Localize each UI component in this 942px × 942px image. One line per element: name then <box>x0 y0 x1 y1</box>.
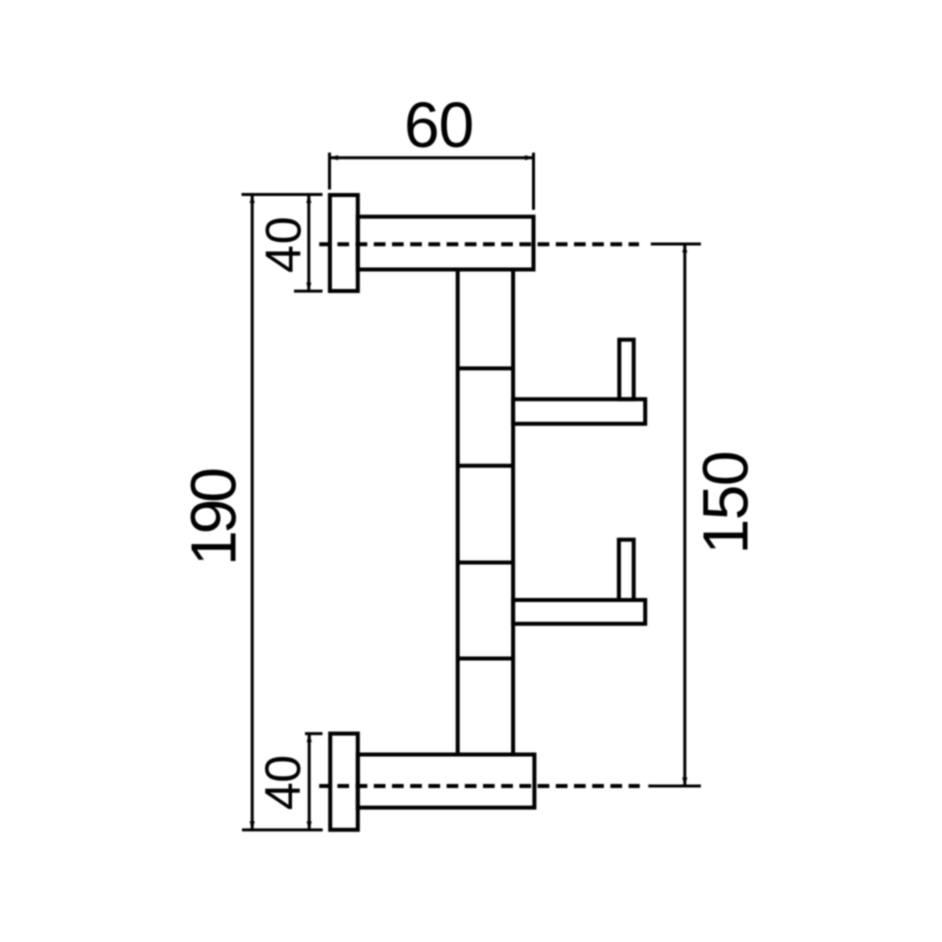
svg-text:40: 40 <box>256 215 312 273</box>
bottom extension line shared 190/40 <box>242 828 323 831</box>
bottom wall flange <box>330 734 358 830</box>
dim 40 top lower extension <box>294 290 323 293</box>
svg-text:40: 40 <box>255 755 311 810</box>
dim 40 top line <box>307 195 310 292</box>
dim 60 right extension <box>532 153 535 210</box>
dim 150 bottom extension <box>648 785 701 788</box>
hook arm 1 <box>513 399 645 424</box>
dim 40 bottom line <box>308 734 311 830</box>
dim 150 line <box>683 244 686 786</box>
arrow dim190 up <box>250 195 255 204</box>
post joint line 1 <box>458 366 513 370</box>
top centerline <box>319 242 639 246</box>
hook arm 2 <box>513 600 645 624</box>
dim 190 line <box>251 195 254 830</box>
bottom centerline <box>319 784 640 788</box>
vertical post <box>458 270 513 755</box>
arrow dim40top up <box>306 195 311 204</box>
top wall flange <box>330 195 358 291</box>
dim 40 bottom upper extension <box>305 732 323 735</box>
arrow dim150 up <box>682 244 687 253</box>
dim 150 top extension <box>651 243 701 246</box>
svg-text:190: 190 <box>178 469 250 566</box>
arrow dim40top down <box>306 283 311 292</box>
top mounting arm <box>358 217 534 270</box>
arrow dim150 down <box>682 778 687 787</box>
arrow dim40bot up <box>307 734 312 743</box>
svg-text:60: 60 <box>404 89 473 161</box>
bottom mounting arm <box>358 755 535 808</box>
svg-text:150: 150 <box>689 452 761 554</box>
arrow dim60 right <box>525 155 534 160</box>
post joint line 4 <box>458 657 513 661</box>
arrow dim60 left <box>330 155 339 160</box>
post joint line 2 <box>458 464 513 468</box>
dim 60 left extension <box>328 153 331 190</box>
top extension line shared 40/190 <box>242 193 323 196</box>
dim 60 line <box>330 156 534 159</box>
arrow dim40bot down <box>307 821 312 830</box>
hook peg 1 <box>619 340 633 400</box>
hook peg 2 <box>619 540 634 600</box>
arrow dim190 down <box>250 821 255 830</box>
post joint line 3 <box>458 561 513 565</box>
